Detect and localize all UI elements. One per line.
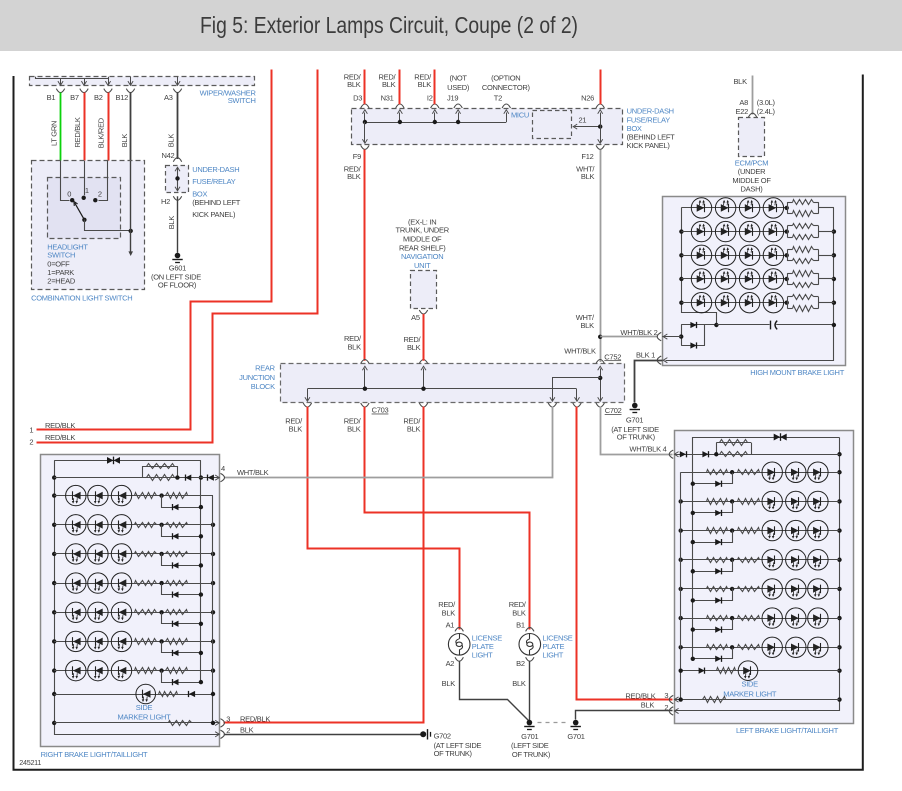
wire to contact 2: [99, 161, 108, 201]
navigation pin A5: [419, 310, 427, 314]
right taillight side marker row: [54, 694, 213, 696]
svg-text:BLK: BLK: [382, 80, 396, 89]
wire BLK H2 to G601: [177, 196, 179, 253]
contact 1: [82, 196, 86, 200]
svg-text:NAVIGATION: NAVIGATION: [401, 252, 443, 261]
switch lever: [75, 203, 85, 220]
left taillight pin 4 row: [675, 454, 840, 456]
wiper/washer switch box: [30, 77, 255, 86]
wire BLK B2 to G701: [529, 661, 531, 721]
wire BLK left taillight pin2 to G701: [576, 711, 673, 720]
svg-text:BLK: BLK: [512, 679, 526, 688]
MICU N26 branch arrow 21: [575, 126, 601, 128]
svg-text:UNDER-DASH: UNDER-DASH: [192, 165, 239, 174]
svg-text:B7: B7: [70, 93, 79, 102]
wire B12 continues down: [130, 161, 132, 253]
rear junction block box: [281, 364, 625, 403]
left taillight pin 3 row: [675, 699, 840, 701]
svg-text:D3: D3: [353, 93, 362, 102]
svg-text:2=HEAD: 2=HEAD: [47, 276, 76, 285]
right taillight LED rows: [54, 495, 213, 497]
svg-text:LIGHT: LIGHT: [542, 651, 563, 660]
svg-text:BLK: BLK: [347, 424, 361, 433]
svg-text:RED/BLK: RED/BLK: [45, 421, 75, 430]
fuse box internal wire: [177, 168, 179, 191]
wire RED/BLK B7: [84, 93, 86, 162]
high mount left bus: [682, 208, 717, 325]
wiper/washer pin B2: [108, 79, 110, 85]
svg-text:MIDDLE OF: MIDDLE OF: [403, 235, 442, 244]
right taillight pin 4 connector: [221, 473, 225, 481]
svg-text:BLK: BLK: [641, 701, 655, 710]
svg-text:OF TRUNK): OF TRUNK): [617, 433, 656, 442]
red wire stub I2: [434, 70, 436, 105]
wire 1 RED/BLK: [37, 70, 272, 430]
svg-text:LT GRN: LT GRN: [49, 121, 58, 146]
junction block top pin C752: [596, 360, 604, 364]
svg-text:MIDDLE OF: MIDDLE OF: [732, 176, 771, 185]
wire RED/BLK to right taillight pin 3: [224, 407, 424, 723]
svg-text:RIGHT BRAKE LIGHT/TAILLIGHT: RIGHT BRAKE LIGHT/TAILLIGHT: [41, 750, 148, 759]
svg-text:SIDE: SIDE: [742, 679, 759, 688]
high mount LED row 2: [681, 231, 787, 233]
svg-text:N26: N26: [581, 93, 594, 102]
svg-text:BLK: BLK: [733, 77, 747, 86]
MICU pin I2: [431, 104, 439, 108]
junction block exit right: [576, 389, 578, 401]
MICU pin T2: [502, 104, 510, 108]
wire to contact 1: [84, 161, 86, 195]
svg-text:(2.4L): (2.4L): [757, 107, 776, 116]
headlight switch box: [48, 178, 121, 239]
svg-text:BLK: BLK: [240, 726, 254, 735]
right taillight right bus: [212, 496, 214, 723]
wire BLK A2 to G701: [460, 662, 530, 722]
svg-text:(UNDER: (UNDER: [738, 167, 766, 176]
svg-text:JUNCTION: JUNCTION: [239, 373, 275, 382]
wiper/washer pin B1: [60, 79, 62, 85]
svg-text:C703: C703: [372, 406, 389, 415]
svg-text:B12: B12: [115, 93, 128, 102]
svg-text:FUSE/RELAY: FUSE/RELAY: [192, 177, 236, 186]
MICU pin N31: [396, 104, 404, 108]
high mount brake light box: [663, 197, 846, 366]
svg-text:N31: N31: [381, 93, 394, 102]
svg-text:245211: 245211: [19, 758, 41, 767]
high mount LED row 5: [681, 302, 787, 304]
svg-text:1: 1: [85, 186, 89, 195]
svg-text:BLK: BLK: [167, 216, 176, 230]
svg-text:A5: A5: [411, 313, 420, 322]
svg-text:BLOCK: BLOCK: [251, 382, 275, 391]
ground G701 left taillight: [573, 720, 579, 726]
svg-text:COMBINATION LIGHT SWITCH: COMBINATION LIGHT SWITCH: [31, 293, 132, 302]
svg-text:REAR: REAR: [255, 364, 276, 373]
svg-text:BLK: BLK: [347, 80, 361, 89]
MICU pin D3: [361, 104, 369, 108]
wire WHT/BLK to right taillight pin 4: [225, 407, 553, 478]
wire RED/BLK F9 down: [364, 150, 366, 361]
svg-text:2: 2: [226, 726, 230, 735]
svg-text:RED/BLK: RED/BLK: [45, 433, 75, 442]
svg-text:BLK/RED: BLK/RED: [97, 117, 106, 148]
wire LT GRN B1: [60, 93, 62, 162]
left taillight outer bus: [675, 438, 840, 711]
svg-text:SWITCH: SWITCH: [228, 96, 256, 105]
left taillight top row with diode pair: [693, 437, 840, 439]
svg-text:BLK: BLK: [289, 424, 303, 433]
wire BLK B12: [130, 93, 132, 162]
svg-text:A2: A2: [446, 659, 455, 668]
junction block top pin F9 wire: [361, 360, 369, 364]
svg-text:USED): USED): [447, 83, 470, 92]
svg-text:UNIT: UNIT: [414, 261, 431, 270]
MICU box: [352, 109, 623, 145]
MICU internal bus: [365, 122, 506, 124]
svg-text:G701: G701: [567, 732, 584, 741]
right taillight pin 4 row: [54, 477, 219, 479]
svg-text:WHT/BLK: WHT/BLK: [564, 347, 596, 356]
wire RED/BLK to license light A: [308, 407, 460, 630]
svg-text:DASH): DASH): [741, 185, 764, 194]
wire RED/BLK to license light B: [365, 407, 530, 630]
MICU pin F12: [596, 145, 604, 149]
MICU inner dashed module: [533, 111, 572, 139]
svg-text:KICK PANEL): KICK PANEL): [627, 141, 671, 150]
left taillight right bus: [680, 472, 682, 699]
svg-text:BLK: BLK: [442, 679, 456, 688]
high mount LED row 4: [681, 278, 787, 280]
red wire stub N31: [399, 70, 401, 105]
svg-text:H2: H2: [161, 197, 170, 206]
high mount diode pair loop: [681, 325, 683, 346]
title bar: [0, 0, 902, 51]
svg-text:BLK: BLK: [442, 609, 456, 618]
ground tie dashed: [538, 722, 569, 724]
under-dash fuse/relay box (left): [166, 166, 189, 193]
right taillight top row with diode pair: [54, 460, 201, 462]
high mount capacitor: [716, 324, 769, 326]
combination light switch box: [32, 161, 145, 290]
svg-text:A1: A1: [446, 621, 455, 630]
svg-text:WHT/BLK: WHT/BLK: [237, 468, 269, 477]
svg-text:B1: B1: [516, 621, 525, 630]
svg-text:F9: F9: [353, 152, 361, 161]
ground G702: [420, 731, 426, 737]
svg-text:BLK: BLK: [580, 321, 594, 330]
left taillight pin 2 connector: [669, 707, 673, 715]
MICU pin J19: [454, 104, 462, 108]
left taillight side marker row: [681, 670, 840, 672]
svg-text:BLK: BLK: [347, 172, 361, 181]
svg-text:MICU: MICU: [511, 111, 529, 120]
left taillight diode column: [692, 437, 694, 659]
wiper/washer pin B7: [84, 79, 86, 85]
svg-text:WHT/BLK 2: WHT/BLK 2: [620, 328, 657, 337]
svg-text:B2: B2: [94, 93, 103, 102]
svg-text:UNDER-DASH: UNDER-DASH: [627, 107, 674, 116]
svg-text:C702: C702: [605, 406, 622, 415]
junction on B12 wire: [129, 229, 133, 233]
svg-text:N42: N42: [161, 151, 174, 160]
MICU pin F9: [361, 145, 369, 149]
right taillight outer bus: [55, 461, 219, 735]
high mount right bus: [666, 208, 834, 361]
svg-text:B2: B2: [516, 659, 525, 668]
junction block top pin A5 wire: [419, 360, 427, 364]
svg-text:BLK: BLK: [347, 342, 361, 351]
svg-text:G701: G701: [521, 732, 538, 741]
junction block C752 branch: [598, 376, 602, 380]
red wire stub D3: [364, 70, 366, 105]
svg-text:(NOT: (NOT: [449, 74, 467, 83]
wire 2 RED/BLK: [37, 70, 318, 443]
navigation unit box: [411, 271, 437, 309]
wire BLK/RED B2: [108, 93, 110, 162]
junction block bottom connectors: [303, 403, 311, 407]
svg-text:2: 2: [98, 189, 102, 198]
wiper/washer pin A3: [177, 77, 179, 85]
right taillight pin 2 connector: [221, 730, 225, 738]
high mount pin 2: [657, 332, 661, 340]
wiper/washer internal bus: [36, 77, 109, 79]
wire to contact 0: [61, 161, 70, 201]
svg-text:(3.0L): (3.0L): [757, 98, 776, 107]
svg-text:BLK: BLK: [581, 172, 595, 181]
wire RED/BLK A5 down: [423, 314, 425, 361]
high mount pin 1: [657, 356, 661, 364]
wire RED/BLK to left taillight pin 3: [577, 407, 673, 700]
svg-text:2: 2: [29, 438, 33, 447]
wire WHT/BLK C702 to left taillight pin 4: [601, 407, 673, 455]
contact 0: [70, 198, 74, 202]
wire WHT/BLK F12 down: [600, 150, 602, 362]
wiper/washer pin B12: [130, 77, 132, 85]
ground G601: [175, 253, 181, 259]
junction block internal bus: [308, 388, 577, 390]
left taillight LED rows: [681, 472, 840, 474]
svg-text:G601: G601: [169, 264, 186, 273]
svg-text:I2: I2: [427, 93, 433, 102]
svg-text:E22: E22: [735, 107, 748, 116]
right taillight pin 3 row: [54, 722, 219, 724]
wire BLK A3: [177, 93, 179, 160]
svg-text:A8: A8: [739, 98, 748, 107]
right taillight pin 3 connector: [221, 719, 225, 727]
svg-text:(LEFT SIDE: (LEFT SIDE: [511, 741, 549, 750]
svg-text:SIDE: SIDE: [136, 703, 153, 712]
MICU N26 junction: [598, 124, 602, 128]
svg-text:G702: G702: [434, 732, 451, 741]
high mount LED row 3: [681, 255, 787, 257]
wire lever to B12 wire: [85, 220, 131, 231]
svg-text:C752: C752: [604, 352, 621, 361]
ground G701 high mount: [632, 403, 638, 409]
svg-text:OF TRUNK): OF TRUNK): [512, 750, 551, 759]
svg-text:B1: B1: [47, 93, 56, 102]
svg-text:KICK PANEL): KICK PANEL): [192, 210, 236, 219]
svg-text:Fig 5: Exterior Lamps Circuit,: Fig 5: Exterior Lamps Circuit, Coupe (2 …: [200, 12, 578, 38]
wire BLK ECM: [752, 76, 754, 115]
svg-text:BLK: BLK: [418, 80, 432, 89]
svg-text:LIGHT: LIGHT: [472, 651, 493, 660]
contact 2: [93, 198, 97, 202]
red wire stub N26: [600, 70, 602, 105]
svg-text:RED/: RED/: [438, 600, 456, 609]
left taillight box: [675, 431, 854, 724]
svg-text:3: 3: [226, 714, 230, 723]
svg-text:BLK: BLK: [407, 343, 421, 352]
svg-text:RED/BLK: RED/BLK: [73, 117, 82, 147]
ECM/PCM box: [739, 118, 765, 157]
svg-text:MARKER LIGHT: MARKER LIGHT: [118, 713, 172, 722]
svg-text:(BEHIND LEFT: (BEHIND LEFT: [192, 198, 241, 207]
svg-text:BLK: BLK: [120, 134, 129, 148]
svg-text:OF TRUNK): OF TRUNK): [434, 749, 473, 758]
svg-text:SWITCH: SWITCH: [47, 251, 75, 260]
wire WHT/BLK 2 branch to high mount: [600, 336, 658, 338]
wire BLK high mount to G701: [635, 361, 663, 403]
svg-text:RED/BLK: RED/BLK: [625, 692, 655, 701]
ground G701 license: [527, 720, 533, 726]
svg-text:T2: T2: [494, 93, 502, 102]
left taillight pin 3 connector: [669, 695, 673, 703]
svg-text:RED/BLK: RED/BLK: [240, 714, 270, 723]
svg-text:OF FLOOR): OF FLOOR): [158, 280, 197, 289]
svg-text:(OPTION: (OPTION: [491, 74, 520, 83]
svg-text:0: 0: [67, 189, 71, 198]
left taillight pin 4 connector: [669, 450, 673, 458]
svg-text:MARKER LIGHT: MARKER LIGHT: [723, 689, 777, 698]
right taillight diode column: [200, 460, 202, 682]
svg-text:LEFT BRAKE LIGHT/TAILLIGHT: LEFT BRAKE LIGHT/TAILLIGHT: [736, 726, 839, 735]
right taillight box: [41, 455, 220, 747]
svg-text:RED/: RED/: [509, 600, 527, 609]
svg-text:BLK: BLK: [512, 609, 526, 618]
svg-text:BLK: BLK: [407, 424, 421, 433]
wire BLK right taillight pin2 to G702: [224, 734, 421, 736]
svg-text:BLK: BLK: [167, 134, 176, 148]
MICU D3 to F9 wire: [364, 122, 366, 142]
svg-text:4: 4: [221, 464, 225, 473]
svg-text:BLK 1: BLK 1: [636, 351, 655, 360]
svg-text:J19: J19: [447, 93, 458, 102]
svg-text:WHT/BLK 4: WHT/BLK 4: [629, 444, 666, 453]
junction WHT/BLK: [598, 335, 602, 339]
svg-text:TRUNK, UNDER: TRUNK, UNDER: [396, 226, 450, 235]
svg-text:F12: F12: [581, 152, 593, 161]
svg-text:G701: G701: [626, 415, 643, 424]
svg-text:2: 2: [664, 703, 668, 712]
high mount LED row 1: [681, 207, 787, 209]
svg-text:A3: A3: [164, 93, 173, 102]
svg-text:3: 3: [664, 691, 668, 700]
junction block exit 1: [307, 389, 309, 401]
svg-text:CONNECTOR): CONNECTOR): [482, 83, 531, 92]
svg-text:HIGH MOUNT BRAKE LIGHT: HIGH MOUNT BRAKE LIGHT: [750, 368, 844, 377]
svg-text:1: 1: [29, 425, 33, 434]
MICU pin N26: [596, 104, 604, 108]
svg-text:21: 21: [579, 115, 587, 124]
